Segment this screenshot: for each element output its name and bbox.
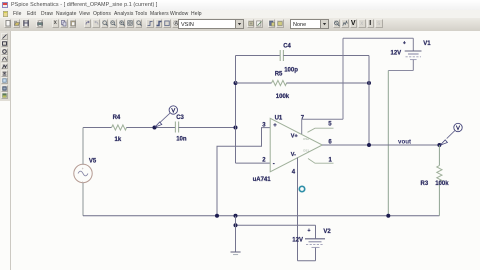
label U1 [275,115,283,121]
svg-text:uA741: uA741 [253,177,272,183]
wire V2 bottom lead horizontal [298,260,316,262]
svg-text:U1: U1 [275,115,283,121]
svg-text:C3: C3 [176,115,184,121]
svg-text:100k: 100k [276,94,290,100]
op-amp plus input mark [273,123,277,129]
wire C4 row left [236,55,281,57]
svg-text:+: + [82,167,84,171]
wire C4 branch right vertical [368,56,370,84]
svg-text:1k: 1k [115,137,122,143]
svg-text:5: 5 [328,122,332,128]
svg-text:R5: R5 [275,71,283,77]
window title bar [0,0,480,10]
wire feedback row left [236,82,272,84]
svg-text:V1: V1 [423,41,431,47]
label R5 [275,71,283,77]
junction pin3 route to bus [215,214,219,218]
svg-text:100p: 100p [284,67,298,73]
wire inverting node to pin2 [236,162,271,164]
wire C3 to inverting node [179,127,236,129]
wire noninverting input route [217,128,270,216]
capacitor C4 [280,50,283,61]
V2 plus mark [308,228,311,234]
op-amp minus input mark [273,161,275,167]
label V2 [323,229,331,235]
ground AGND symbol [231,252,241,255]
label uA741 [253,177,272,183]
op-amp V+ mark [291,133,298,139]
wire V1 return to ground bus [387,71,389,216]
svg-text:2: 2 [262,157,266,163]
wire feedback row right [286,82,369,84]
net label vout [398,139,411,146]
svg-text:C4: C4 [283,44,291,50]
resistor R5 [272,80,287,85]
value label 100k of R3 [435,181,449,187]
svg-text:1: 1 [329,158,333,164]
pin number 7 [301,116,305,122]
svg-text:V-: V- [291,152,296,158]
voltage marker V at vout [440,123,462,145]
junction C3 joins inverting vertical [234,126,238,130]
wire pin7 stub [301,119,303,134]
svg-text:+: + [403,40,406,46]
op-amp OS1 mark [303,149,309,153]
svg-text:-: - [273,161,275,167]
left drawing tool palette [0,31,10,101]
wire vout to R3 [438,145,440,166]
marker bubble on V- supply [299,186,304,191]
svg-text:+: + [308,228,311,234]
voltage marker V at input [155,106,178,127]
wire inverting node vertical [235,83,237,163]
toolbar [0,18,480,32]
label R4 [113,115,121,121]
V1 plus mark [403,40,406,46]
label C4 [283,44,291,50]
pin number 6 [328,140,332,146]
wire C4 row right [283,55,369,57]
wire pin4 stub down [297,158,299,261]
wire C4 branch left vertical [235,56,237,84]
svg-text:10n: 10n [176,137,187,143]
wire V2 plus to ground node [236,224,316,226]
wire output pin6 [322,144,440,146]
label R3 [421,181,429,187]
pin number 5 [328,122,332,128]
value label 10n [176,137,187,143]
capacitor C3 [175,122,178,133]
battery V2 12V [305,225,325,260]
pin number 4 [292,169,296,175]
wire ground bus bottom [83,215,439,217]
op-amp OS2 mark [303,137,309,141]
pin number 1 [329,158,333,164]
battery V1 12V [405,38,422,70]
wire pin7 horizontal [302,118,343,120]
pin 1 stub OS1 [308,159,334,164]
svg-text:V2: V2 [323,229,331,235]
label C3 [176,115,184,121]
junction output feedback [367,143,371,147]
junction feedback right [367,81,371,85]
pin number 3 [262,123,266,129]
wire input row V5 to R4 [83,127,112,129]
value label 100k [276,94,290,100]
wire ground stem [235,216,237,252]
junction ground at bus [234,214,238,218]
wire R3 to ground bus [438,185,440,216]
svg-text:12V: 12V [391,50,402,56]
label V1 [423,41,431,47]
pin number 2 [262,157,266,163]
junction vout at R3 [437,143,441,147]
svg-text:12V: 12V [292,238,303,244]
value label 1k [115,137,122,143]
wire top supply to V1 [343,37,413,39]
value label 100p [284,67,298,73]
value label 12V of V2 [292,238,303,244]
op-amp V- mark [291,152,296,158]
op-amp U1 triangle [270,118,322,172]
svg-text:OS1: OS1 [303,149,309,153]
svg-text:4: 4 [292,169,296,175]
menu bar [0,10,480,18]
label V5 [89,158,97,164]
wire feedback to output node [368,83,370,145]
wire V1 negative lead [388,70,413,72]
junction node input probe point [153,126,157,130]
junction V1 return at bus [386,214,390,218]
resistor R4 [112,125,127,130]
wire R4 to C3 [126,127,175,129]
wire V+ supply riser [342,38,344,119]
svg-text:V5: V5 [89,158,97,164]
value label 12V of V1 [391,50,402,56]
svg-text:V+: V+ [291,133,298,139]
svg-text:R4: R4 [113,115,121,121]
sine source V5 [74,164,92,183]
svg-text:OS2: OS2 [303,137,309,141]
resistor R3 [437,166,442,185]
wire V5 top lead [82,128,84,165]
junction feedback left [234,81,238,85]
junction V2 plus tee [234,223,238,227]
svg-text:R3: R3 [421,181,429,187]
wire V5 bottom lead [82,183,84,216]
svg-text:+: + [273,123,277,129]
svg-text:vout: vout [398,139,411,146]
pin 5 stub OS2 [308,128,334,132]
svg-text:100k: 100k [435,181,449,187]
